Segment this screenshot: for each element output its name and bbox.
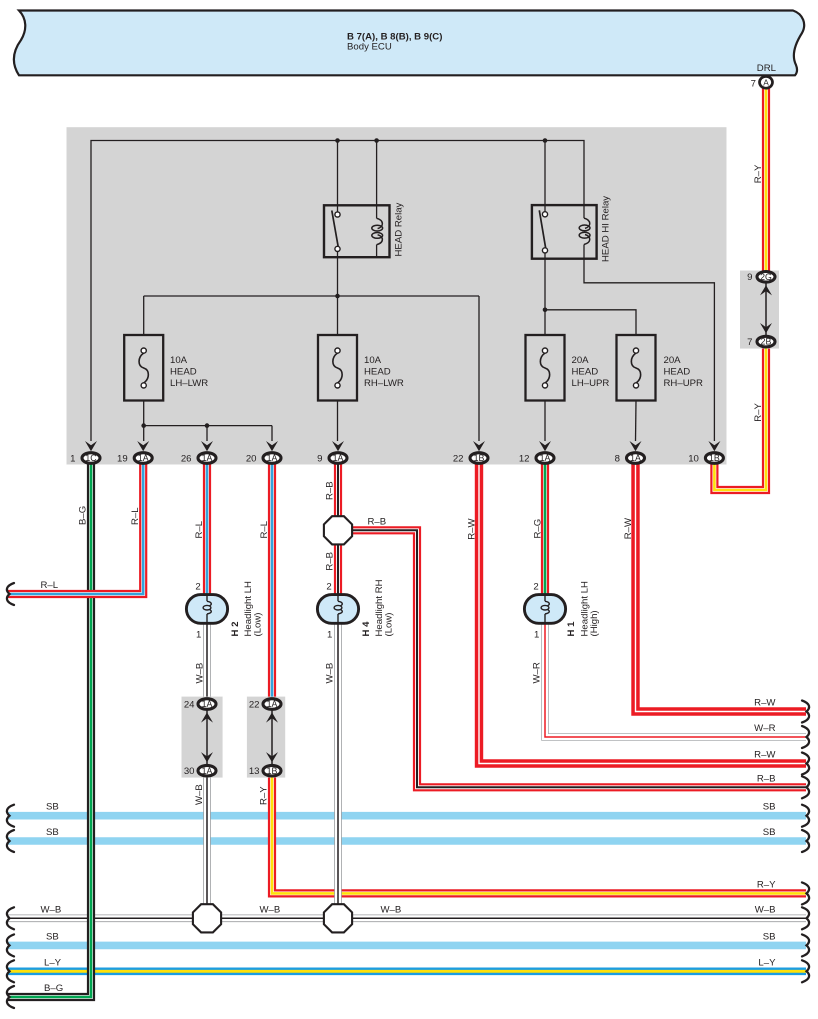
connector pin 8 (1A) <box>630 441 642 451</box>
svg-text:R–Y: R–Y <box>259 786 270 805</box>
svg-text:(High): (High) <box>589 610 600 636</box>
svg-text:12: 12 <box>519 453 530 464</box>
headlight H 1 <box>524 595 565 624</box>
wire R-W from pin 8 to right edge <box>636 458 807 712</box>
connector pin 26 (1A) <box>201 441 213 451</box>
svg-text:SB: SB <box>763 827 776 838</box>
svg-text:R–G: R–G <box>532 519 543 539</box>
svg-text:LH–LWR: LH–LWR <box>170 378 208 389</box>
svg-text:HEAD HI Relay: HEAD HI Relay <box>601 196 612 262</box>
wire: HEAD HI Relay switch to fuse LH-UPR <box>544 259 546 335</box>
svg-text:20: 20 <box>246 453 257 464</box>
svg-text:SB: SB <box>46 931 59 942</box>
svg-text:W–B: W–B <box>260 904 281 915</box>
svg-text:R–B: R–B <box>368 517 387 528</box>
svg-text:2B: 2B <box>761 337 772 347</box>
wire R-L from pin 19 to left edge <box>8 458 143 594</box>
svg-text:W–R: W–R <box>532 662 543 683</box>
svg-text:L–Y: L–Y <box>44 957 62 968</box>
wire W-B from connector 30 to ground bus <box>203 777 211 918</box>
in-line connector block 9/7 2G-2B (gray) <box>740 271 779 349</box>
in-line connector 24(1A)/30(1A) <box>206 709 208 766</box>
svg-text:HEAD: HEAD <box>572 366 599 377</box>
svg-text:1B: 1B <box>267 766 278 776</box>
svg-text:1A: 1A <box>202 453 213 463</box>
wire: drop to pin 20 <box>271 426 273 441</box>
svg-text:HEAD: HEAD <box>664 366 691 377</box>
wire W-B from H2 to connector 24 <box>203 623 211 698</box>
rail SB upper 1 <box>8 812 806 820</box>
connector pin 22 (1B) <box>473 441 485 451</box>
svg-text:R–Y: R–Y <box>753 164 764 183</box>
svg-text:SB: SB <box>763 931 776 942</box>
svg-text:L–Y: L–Y <box>758 957 776 968</box>
svg-text:10: 10 <box>688 453 699 464</box>
fuse 20A LH–UPR <box>526 335 565 401</box>
svg-text:1A: 1A <box>630 453 641 463</box>
continuation mark left <box>7 830 14 852</box>
connector pin 12 (1A) <box>539 441 551 451</box>
svg-text:1A: 1A <box>540 453 551 463</box>
wire R-L from pin 20 to connector 22 <box>268 458 276 698</box>
wire: bus from pin 1C up across top <box>91 141 584 442</box>
svg-text:R–L: R–L <box>130 507 141 525</box>
continuation mark left <box>7 907 14 929</box>
wire R-L from pin 26 to H2 <box>203 458 211 596</box>
wire: HEAD Relay switch to fuse RH-LWR <box>337 257 339 335</box>
continuation mark right <box>802 907 809 929</box>
fuse 10A LH–LWR <box>124 335 163 401</box>
relay HEAD Relay <box>324 205 390 257</box>
continuation mark right <box>802 776 809 798</box>
svg-text:1A: 1A <box>267 699 278 709</box>
svg-text:7: 7 <box>747 337 752 348</box>
svg-text:Body ECU: Body ECU <box>347 42 392 53</box>
wire R-Y DRL feed from A to 2G <box>762 89 770 272</box>
rail SB lower 1 <box>8 942 806 950</box>
svg-text:13: 13 <box>249 766 260 777</box>
svg-text:1C: 1C <box>85 453 97 463</box>
svg-text:HEAD: HEAD <box>170 366 197 377</box>
wire R-Y from connector 13 to right edge <box>272 777 806 893</box>
svg-text:B–G: B–G <box>44 983 63 994</box>
in-line connector block 22/13 (gray) <box>247 697 285 778</box>
svg-text:B–G: B–G <box>78 506 89 525</box>
continuation mark right <box>802 960 809 982</box>
wire: below fuse RH-UPR to pin 8 <box>635 401 638 441</box>
svg-text:DRL: DRL <box>757 63 777 74</box>
svg-text:R–L: R–L <box>194 520 205 538</box>
continuation mark right <box>802 726 809 748</box>
wire W-R from H1 to right edge <box>545 623 806 737</box>
wire R-B branch from junction to right edge <box>351 530 806 787</box>
svg-text:1B: 1B <box>474 453 485 463</box>
svg-text:R–Y: R–Y <box>757 879 776 890</box>
wire: HI relay coil to pin 10 <box>584 259 714 441</box>
svg-text:H 2: H 2 <box>230 622 241 637</box>
svg-text:W–B: W–B <box>194 784 205 805</box>
wire R-B from junction to H4 <box>334 543 342 596</box>
svg-text:30: 30 <box>184 766 195 777</box>
svg-text:RH–LWR: RH–LWR <box>364 378 404 389</box>
svg-text:22: 22 <box>249 699 260 710</box>
continuation mark left <box>7 583 14 605</box>
wire R-W from pin 22 to right edge <box>479 458 806 764</box>
continuation mark left <box>7 805 14 827</box>
wire: down to fuse LH-LWR <box>143 296 145 335</box>
continuation mark right <box>802 830 809 852</box>
svg-text:HEAD Relay: HEAD Relay <box>394 202 405 256</box>
svg-text:H 1: H 1 <box>566 621 577 637</box>
wire R-Y from 2B to pin 10 <box>714 347 766 490</box>
svg-text:10A: 10A <box>170 355 188 366</box>
continuation mark right <box>802 882 809 904</box>
wire: HEAD Relay output bus y=296 <box>144 295 479 297</box>
svg-text:9: 9 <box>747 272 752 283</box>
rail W-B ground bus <box>8 914 806 922</box>
junction octagon W-B right <box>324 904 352 932</box>
svg-text:W–B: W–B <box>324 663 335 684</box>
continuation mark left <box>7 960 14 982</box>
svg-text:19: 19 <box>117 453 128 464</box>
connector pin 19 (1A) <box>137 441 149 451</box>
headlight H 2 <box>186 595 227 624</box>
svg-text:1: 1 <box>196 630 201 641</box>
svg-text:1A: 1A <box>202 766 213 776</box>
rail L-Y <box>8 967 806 975</box>
svg-text:26: 26 <box>181 453 192 464</box>
node: junction dots on top bus <box>335 138 340 143</box>
svg-text:R–Y: R–Y <box>753 403 764 422</box>
wire: 1B branch down to pin 22 <box>478 296 480 441</box>
svg-text:20A: 20A <box>664 355 682 366</box>
relay HEAD HI Relay <box>532 205 597 259</box>
svg-text:R–B: R–B <box>324 481 335 500</box>
wire: branch to fuse RH-UPR <box>545 310 636 335</box>
svg-text:R–B: R–B <box>324 552 335 571</box>
svg-text:1A: 1A <box>333 453 344 463</box>
node: junction below HEAD Relay <box>335 294 340 299</box>
svg-text:H 4: H 4 <box>361 621 372 637</box>
svg-text:1B: 1B <box>709 453 720 463</box>
wire R-B from pin 9 to junction <box>334 458 342 518</box>
svg-text:22: 22 <box>453 453 464 464</box>
wire: HEAD Relay switch feed <box>337 141 339 206</box>
svg-text:W–B: W–B <box>41 904 62 915</box>
relay/fuse block (gray) <box>67 127 727 464</box>
svg-text:HEAD: HEAD <box>364 366 391 377</box>
wire: HEAD Relay coil feed <box>376 141 378 206</box>
in-line connector block 24/30 (gray) <box>182 697 223 778</box>
svg-text:R–W: R–W <box>623 517 634 539</box>
svg-text:R–W: R–W <box>467 518 478 540</box>
svg-text:8: 8 <box>615 453 620 464</box>
svg-text:W–B: W–B <box>381 904 402 915</box>
svg-text:R–W: R–W <box>754 750 776 761</box>
svg-text:1A: 1A <box>138 453 149 463</box>
svg-text:SB: SB <box>763 802 776 813</box>
svg-text:W–B: W–B <box>194 663 205 684</box>
svg-text:W–R: W–R <box>754 723 775 734</box>
Body ECU banner <box>14 11 804 76</box>
svg-text:10A: 10A <box>364 355 382 366</box>
svg-text:(Low): (Low) <box>253 613 264 637</box>
rail SB upper 2 <box>8 837 806 845</box>
continuation mark left <box>7 934 14 956</box>
svg-text:1A: 1A <box>202 699 213 709</box>
svg-text:1: 1 <box>327 630 332 641</box>
fuse 20A RH–UPR <box>617 335 656 401</box>
continuation mark right <box>802 753 809 775</box>
wire: below fuse LH-LWR to pin 19 <box>143 401 145 441</box>
junction octagon W-B left <box>193 904 221 932</box>
headlight H 4 <box>317 595 358 624</box>
in-line connector 9(2G)/7(2B) <box>765 282 767 337</box>
svg-text:2: 2 <box>195 582 200 593</box>
svg-text:20A: 20A <box>572 355 590 366</box>
connector A (DRL output) <box>760 76 773 88</box>
in-line connector 22(1A)/13(1B) <box>271 709 273 766</box>
svg-text:A: A <box>763 77 769 87</box>
svg-text:R–B: R–B <box>757 773 776 784</box>
svg-text:W–B: W–B <box>755 904 776 915</box>
svg-text:1A: 1A <box>267 453 278 463</box>
connector pin 10 (1B) <box>708 441 720 451</box>
junction octagon R-B <box>324 516 352 544</box>
svg-text:R–W: R–W <box>754 698 776 709</box>
wire: branch bus y=425.6 <box>144 425 272 427</box>
connector pin 9 (1A) <box>332 441 344 451</box>
svg-text:7: 7 <box>751 79 756 90</box>
connector pin 20 (1A) <box>266 441 278 451</box>
svg-text:24: 24 <box>184 699 195 710</box>
wire B-G from pin 1 to bottom edge <box>8 458 91 997</box>
svg-text:2: 2 <box>533 582 538 593</box>
continuation mark right <box>802 805 809 827</box>
node: junction dots at y=425.6 <box>141 423 146 428</box>
svg-text:RH–UPR: RH–UPR <box>664 378 704 389</box>
wire: drop to pin 26 <box>206 426 208 441</box>
wire: below fuse RH-LWR to pin 9 <box>337 401 339 441</box>
svg-text:R–L: R–L <box>41 580 59 591</box>
svg-text:SB: SB <box>46 827 59 838</box>
svg-text:9: 9 <box>317 453 322 464</box>
continuation mark right <box>802 701 809 723</box>
wire: HEAD HI Relay switch feed <box>544 141 546 206</box>
svg-text:1: 1 <box>70 453 75 464</box>
svg-text:2: 2 <box>326 582 331 593</box>
wire R-G from pin 12 to H1 <box>541 458 549 596</box>
connector pin 1 (1C) <box>85 441 97 451</box>
svg-text:LH–UPR: LH–UPR <box>572 378 610 389</box>
continuation mark left <box>7 986 14 1008</box>
svg-text:(Low): (Low) <box>384 613 395 637</box>
svg-text:2G: 2G <box>760 272 772 282</box>
svg-text:1: 1 <box>534 630 539 641</box>
fuse 10A RH–LWR <box>318 335 357 401</box>
node: junction below HEAD HI Relay <box>543 308 548 313</box>
svg-text:SB: SB <box>46 802 59 813</box>
wire W-B from H4 to ground bus <box>334 623 342 918</box>
svg-text:R–L: R–L <box>259 520 270 538</box>
wire: below fuse LH-UPR to pin 12 <box>544 401 546 441</box>
continuation mark right <box>802 934 809 956</box>
